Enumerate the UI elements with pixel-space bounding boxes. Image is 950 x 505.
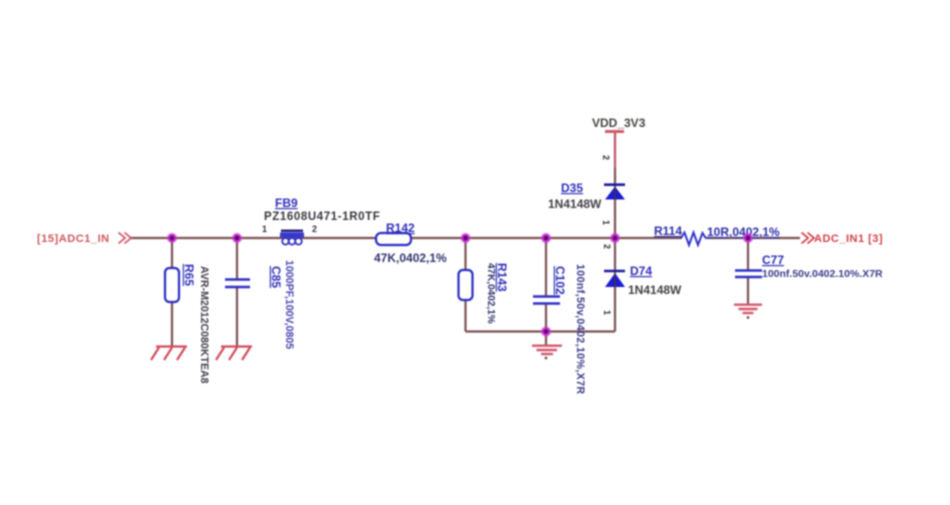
wire D35 anode to main: [614, 199, 616, 238]
svg-text:100nf,50v,0402,10%,X7R: 100nf,50v,0402,10%,X7R: [574, 264, 586, 395]
wire C77 ground stub: [747, 277, 749, 304]
ground chassis under R65: [151, 347, 187, 361]
svg-text:PZ1608U471-1R0TF: PZ1608U471-1R0TF: [264, 211, 380, 223]
svg-text:R65: R65: [182, 264, 196, 286]
wire C85 branch bottom: [236, 287, 238, 346]
svg-text:2: 2: [602, 244, 612, 249]
svg-text:1N4148W: 1N4148W: [628, 283, 682, 297]
wire C85 branch top: [236, 238, 238, 279]
node input port chevrons: [119, 233, 132, 244]
svg-text:1: 1: [262, 224, 267, 234]
resistor R143: [459, 263, 510, 324]
node [15]ADC1_IN label: [37, 233, 110, 245]
junction at R143: [460, 233, 470, 243]
node ADC_IN1 [3] label: [814, 233, 883, 245]
svg-text:47K,0402,1%: 47K,0402,1%: [485, 263, 496, 324]
junction at C77: [743, 233, 753, 243]
wire C77 branch top: [747, 238, 749, 270]
ground chassis under C85: [216, 347, 252, 361]
svg-text:[15]ADC1_IN: [15]ADC1_IN: [37, 233, 110, 245]
svg-text:D35: D35: [561, 181, 583, 195]
wire R65 branch: [171, 238, 173, 346]
wire C102 branch top: [545, 238, 547, 296]
resistor R65: [165, 264, 210, 384]
diode D74: [604, 264, 682, 297]
wire R143 branch top: [464, 238, 466, 270]
node output port chevrons: [802, 233, 815, 244]
resistor R114: [654, 224, 780, 245]
capacitor C85: [225, 260, 295, 349]
svg-text:FB9: FB9: [275, 196, 298, 210]
junction at diodes: [610, 233, 620, 243]
wire main net ADC1_IN horizontal: [131, 237, 682, 239]
diode D35: [548, 181, 625, 211]
svg-text:D74: D74: [630, 264, 652, 278]
svg-text:R143: R143: [495, 263, 509, 292]
wire main net after R114: [706, 237, 800, 239]
svg-text:VDD_3V3: VDD_3V3: [592, 116, 646, 130]
junction at C102 top: [541, 233, 551, 243]
svg-text:47K,0402,1%: 47K,0402,1%: [374, 251, 447, 265]
svg-text:2: 2: [312, 224, 317, 234]
svg-text:2: 2: [601, 155, 611, 160]
wire R143 branch bottom: [464, 300, 466, 332]
wire C102 branch bottom: [545, 303, 547, 332]
ferrite bead FB9: [264, 196, 380, 245]
junction at C102 bottom: [541, 326, 551, 336]
power symbol VDD_3V3: [592, 116, 646, 132]
capacitor C77: [735, 253, 883, 280]
ground earth under C77: [734, 305, 762, 313]
wire VDD to D35: [614, 132, 616, 168]
svg-text:C102: C102: [553, 266, 567, 295]
svg-text:C85: C85: [269, 266, 283, 288]
svg-text:1N4148W: 1N4148W: [548, 197, 602, 211]
wire C102 ground stub: [545, 332, 547, 346]
resistor R142: [374, 221, 447, 265]
ground earth under C102: [532, 346, 562, 354]
svg-text:100nf.50v.0402.10%.X7R: 100nf.50v.0402.10%.X7R: [762, 268, 883, 280]
junction at C85: [232, 233, 242, 243]
ground earth dot under C77: [747, 316, 750, 319]
svg-text:C77: C77: [762, 253, 784, 267]
wire D74 anode to bottom net: [614, 287, 616, 332]
svg-text:1: 1: [602, 310, 612, 315]
svg-text:R142: R142: [386, 221, 415, 235]
wire main to D74 cathode: [614, 238, 616, 271]
junction at R65: [167, 233, 177, 243]
svg-text:1: 1: [601, 220, 611, 225]
svg-text:AVR-M2012C080KTEA8: AVR-M2012C080KTEA8: [198, 266, 210, 384]
svg-text:ADC_IN1 [3]: ADC_IN1 [3]: [814, 233, 883, 245]
svg-text:R114: R114: [654, 224, 682, 238]
wire bottom clamp net: [466, 330, 616, 332]
svg-text:1000PF,100V,0805: 1000PF,100V,0805: [283, 260, 295, 349]
capacitor C102: [533, 264, 586, 395]
ground earth dot under C102: [545, 357, 548, 360]
